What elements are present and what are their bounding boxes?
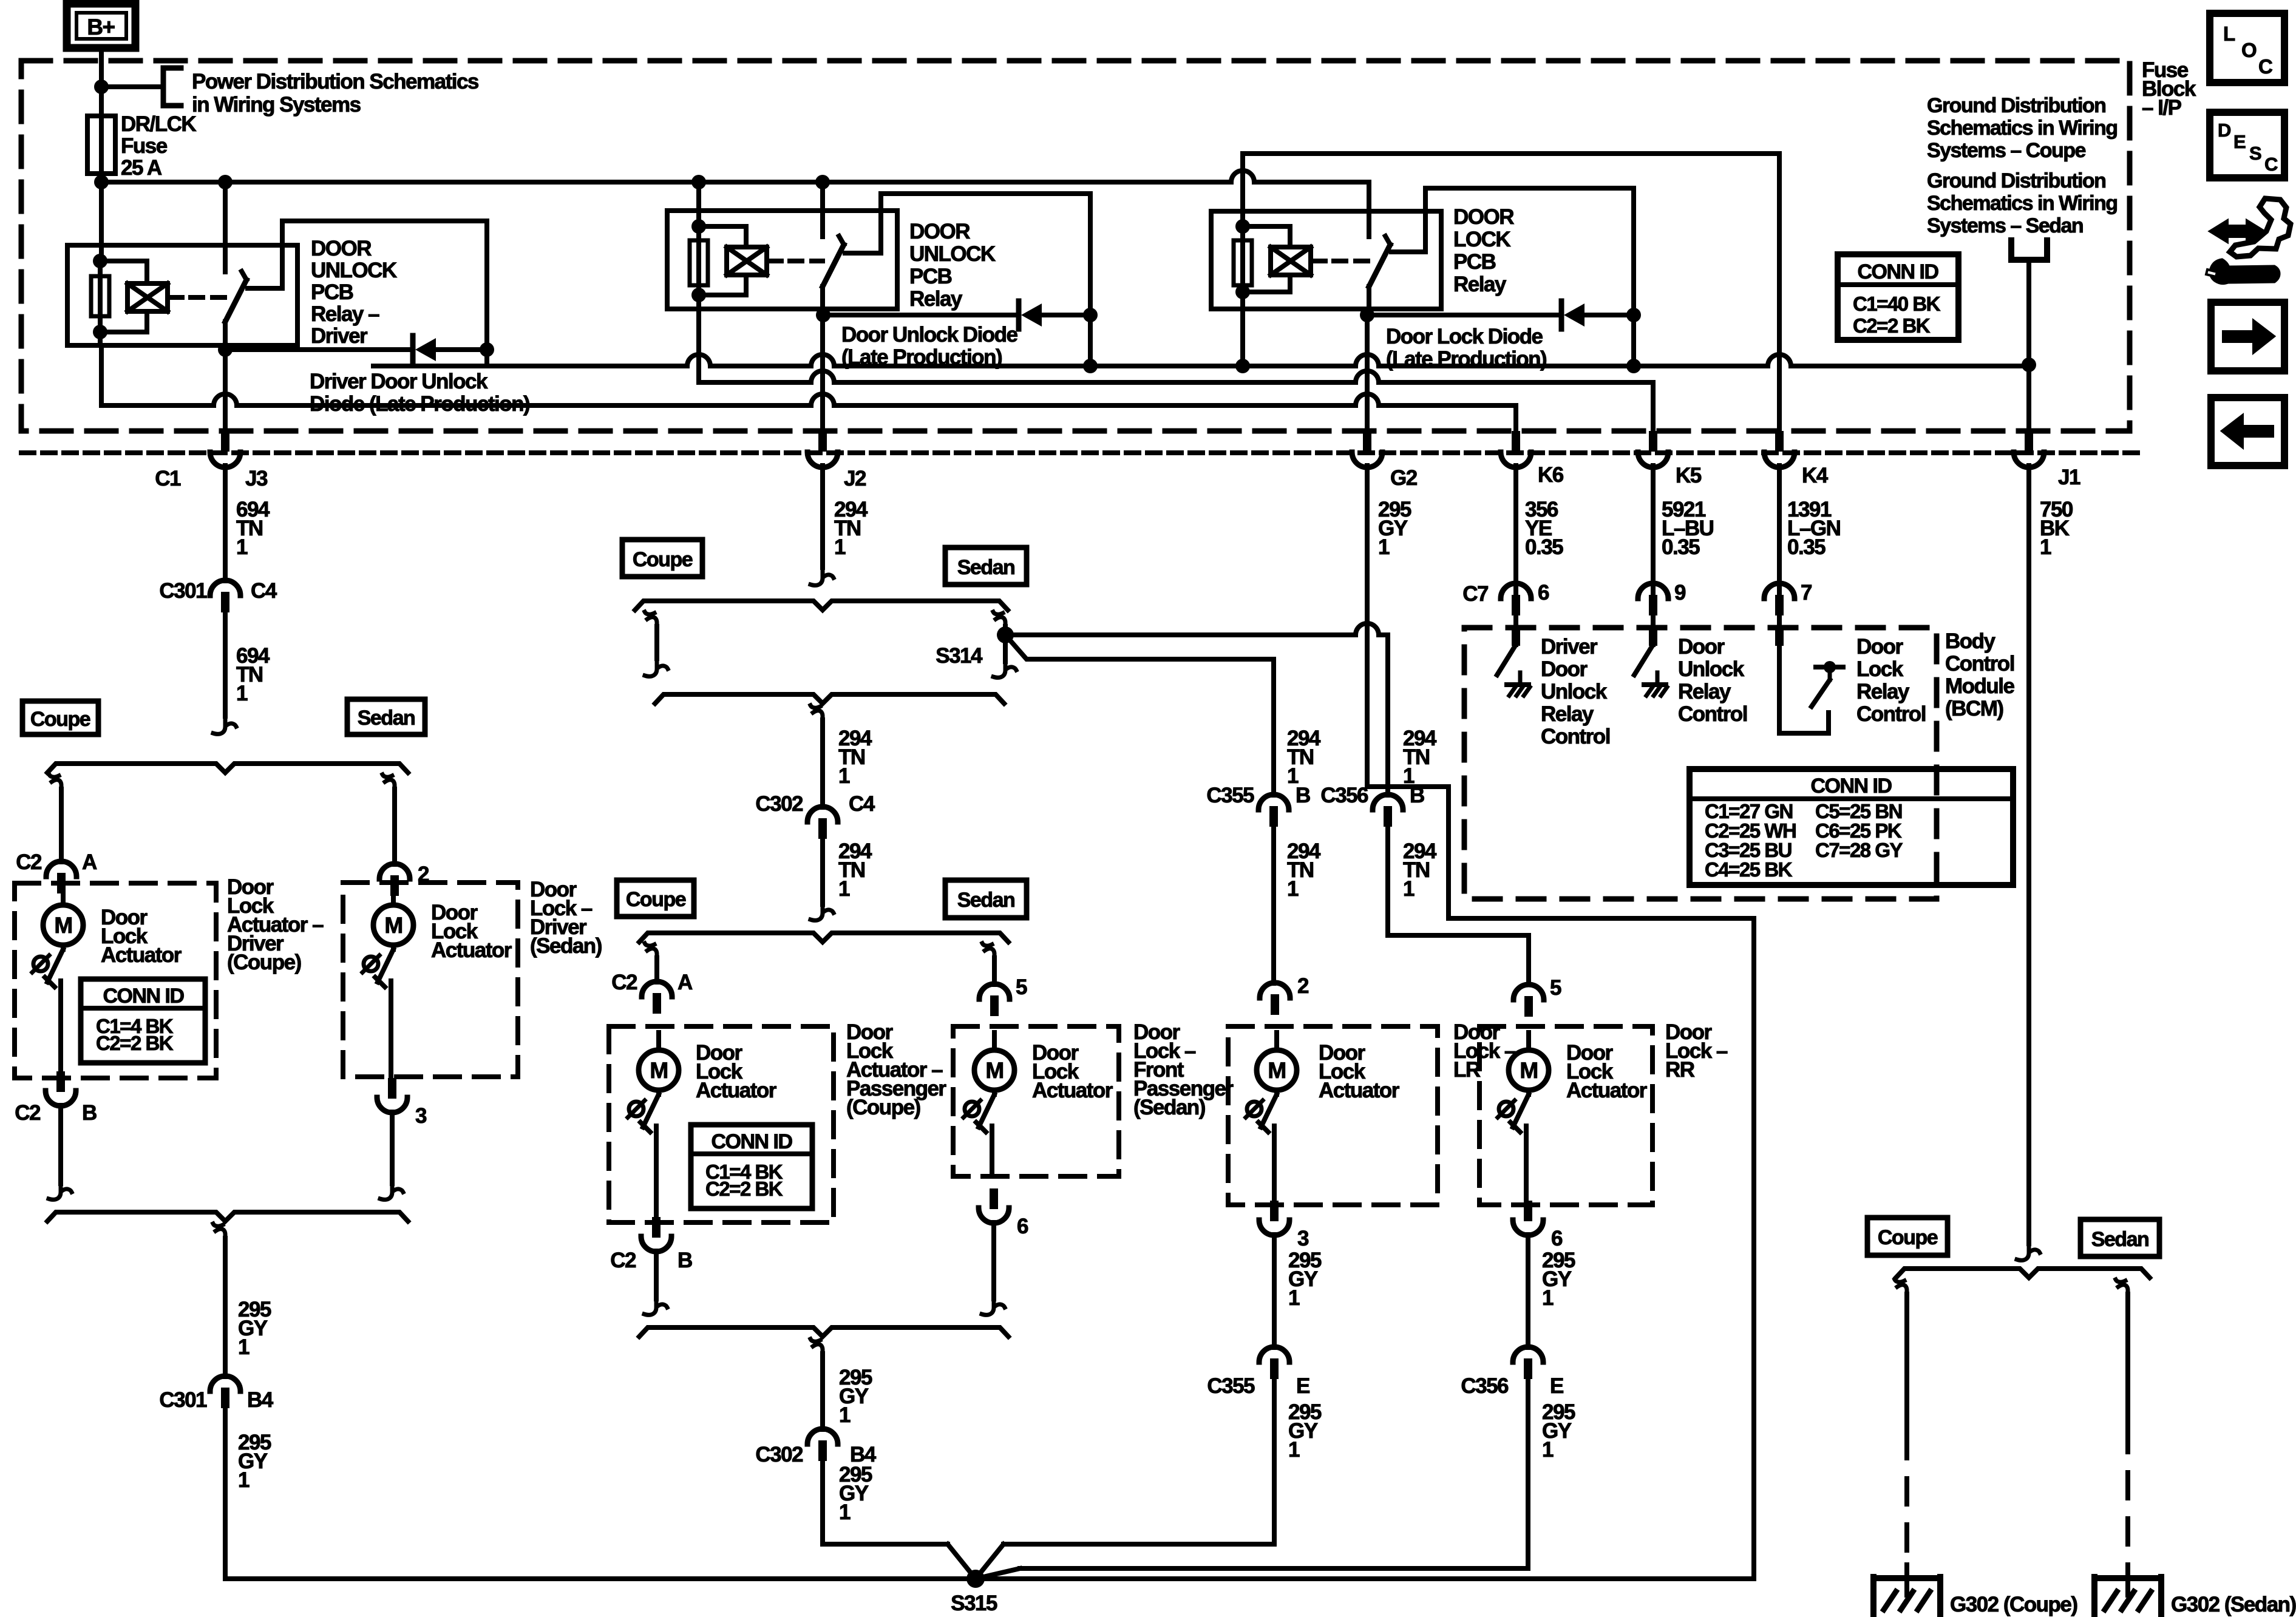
svg-text:Sedan: Sedan: [957, 556, 1015, 579]
coupe J2 stub: [645, 612, 668, 676]
svg-text:C1: C1: [155, 467, 181, 490]
label Door Lock Actuator (coupe driver): [101, 906, 182, 967]
merge brace driver doors: [47, 1212, 408, 1221]
svg-text:S314: S314: [936, 644, 983, 668]
label DOOR UNLOCK PCB Relay - Driver: [311, 237, 397, 348]
connector C302/B4: [755, 1429, 876, 1466]
svg-text:Actuator: Actuator: [1319, 1079, 1400, 1102]
svg-text:PCB: PCB: [311, 280, 353, 304]
svg-text:1: 1: [236, 682, 248, 705]
svg-text:G2: G2: [1390, 466, 1418, 490]
svg-text:7: 7: [1801, 581, 1812, 605]
svg-text:(Sedan): (Sedan): [1133, 1096, 1205, 1119]
conn id box coupe driver actuator: [81, 979, 205, 1063]
wire J1 end hook: [2017, 1242, 2040, 1260]
label Power Distribution Schematics: [192, 70, 479, 117]
ground G302 sedan: [2094, 1565, 2161, 1616]
node bus to driver unlock relay switch: [218, 175, 233, 189]
node lock coil bottom on runner: [1235, 359, 1250, 373]
relay K driver-door-unlock box: [67, 245, 297, 345]
connector K5: [1638, 431, 1702, 487]
connector C7 pin 9: [1638, 581, 1686, 615]
switch door lock relay control: [1775, 625, 1843, 733]
wire unlock switch to J2: [820, 286, 825, 313]
svg-text:Ground Distribution: Ground Distribution: [1927, 169, 2105, 192]
relay K door-unlock box: [667, 211, 897, 309]
svg-text:1: 1: [1288, 1286, 1300, 1310]
resistor lock relay coil suppression: [1234, 226, 1252, 292]
coil-switch link dashes: [168, 295, 225, 300]
svg-text:DOOR: DOOR: [311, 237, 372, 260]
power distribution bracket symbol: [163, 68, 181, 106]
svg-text:Control: Control: [1541, 725, 1610, 748]
label box Sedan (ground split): [2080, 1219, 2159, 1256]
connector C356/B: [1320, 784, 1424, 827]
wire to C302: [820, 720, 825, 807]
wire driver return upper: [223, 1238, 228, 1377]
sedan passenger branch: [982, 943, 994, 985]
coupe passenger branch: [645, 943, 657, 982]
label 5921 L-BU 0.35: [1662, 498, 1714, 559]
connector J2: [807, 431, 866, 490]
svg-text:M: M: [985, 1058, 1003, 1083]
connector 5 RR: [1513, 976, 1561, 1017]
wire lock coil bottom link: [1240, 292, 1245, 366]
svg-text:C355: C355: [1206, 784, 1254, 807]
svg-text:K6: K6: [1538, 463, 1564, 487]
svg-text:E: E: [1550, 1374, 1563, 1398]
diode door lock (late production): [1367, 301, 1634, 329]
wire K6 runner: [101, 394, 1516, 431]
svg-text:J2: J2: [844, 467, 866, 490]
split brace passenger doors: [639, 933, 1008, 942]
svg-text:C2=2 BK: C2=2 BK: [96, 1032, 174, 1054]
wire mid chain start: [810, 705, 823, 727]
svg-text:1: 1: [238, 1335, 250, 1359]
motor door lock actuator coupe passenger: [628, 1032, 679, 1222]
motor door lock actuator coupe driver: [32, 887, 83, 1078]
motor door lock actuator sedan front passenger: [963, 1032, 1014, 1176]
svg-text:1: 1: [838, 764, 850, 788]
wire G2 actuator feed: [1367, 466, 1754, 1579]
label Door Unlock Diode: [841, 323, 1018, 369]
actuator box door lock coupe driver: [15, 883, 216, 1078]
svg-text:2: 2: [1297, 974, 1309, 998]
svg-text:Unlock: Unlock: [1678, 657, 1745, 681]
label Driver Door Unlock Relay Control: [1541, 635, 1610, 748]
svg-text:M: M: [54, 913, 72, 938]
label Body Control Module (BCM): [1945, 629, 2015, 720]
connector C2/B coupe passenger: [610, 1217, 692, 1272]
svg-text:5: 5: [1550, 976, 1561, 1000]
connector C2/A coupe passenger: [611, 971, 693, 1014]
svg-text:C356: C356: [1461, 1374, 1509, 1398]
label 295 GY 1 driver return: [238, 1298, 271, 1359]
connector C1/J3: [155, 431, 268, 490]
svg-text:1: 1: [1287, 877, 1299, 901]
wire C356 to RR jog: [1388, 827, 1529, 983]
label 295 GY 1 passenger return: [839, 1366, 872, 1427]
svg-text:C7: C7: [1462, 582, 1488, 606]
wire RR return to S315 line2: [1020, 1379, 1528, 1568]
svg-text:M: M: [1520, 1058, 1537, 1083]
svg-text:Actuator: Actuator: [1566, 1079, 1648, 1102]
node S314: [997, 626, 1014, 643]
wire unlock relay output L: [845, 194, 1090, 313]
svg-text:B: B: [678, 1249, 692, 1272]
svg-text:Coupe: Coupe: [30, 708, 90, 731]
wire driver relay label-box bottom stub: [373, 350, 487, 366]
svg-text:Ground Distribution: Ground Distribution: [1927, 94, 2105, 117]
node bus to unlock relay coil: [691, 175, 706, 189]
coil-switch link dashes lock: [1311, 259, 1368, 263]
node lock relay coil bottom: [1235, 285, 1250, 299]
wire sedan driver branch: [392, 789, 397, 864]
svg-text:CONN ID: CONN ID: [1810, 775, 1892, 798]
label 1391 L-GN 0.35: [1787, 498, 1840, 559]
label box Sedan (driver split): [347, 699, 425, 734]
connector C302/C4: [755, 792, 875, 839]
switch door unlock relay: [823, 182, 844, 286]
passenger return start: [810, 1339, 823, 1361]
wire C301 to split: [213, 612, 236, 734]
motor door lock actuator sedan driver: [362, 887, 413, 1077]
label box Sedan (passenger split): [945, 880, 1027, 918]
icon DESC box: [2210, 112, 2284, 178]
label S315: [951, 1592, 997, 1615]
BCM dashed box: [1464, 628, 1937, 899]
label 295 GY 1 LR upper: [1288, 1249, 1322, 1310]
coil-switch link dashes mid: [767, 259, 823, 263]
svg-text:Sedan: Sedan: [358, 707, 415, 730]
resistor driver relay coil suppression: [91, 261, 109, 332]
svg-text:Unlock: Unlock: [1541, 680, 1608, 703]
svg-text:3: 3: [415, 1104, 427, 1128]
svg-text:Coupe: Coupe: [633, 548, 693, 571]
svg-text:B: B: [1296, 784, 1310, 807]
connector C301/B4: [159, 1376, 273, 1412]
svg-text:CONN ID: CONN ID: [711, 1130, 792, 1153]
coupe driver branch start: [49, 775, 61, 796]
label box Coupe (passenger split): [617, 880, 694, 917]
connector J1: [2014, 431, 2080, 489]
svg-text:Control: Control: [1678, 702, 1747, 726]
connector C355/E: [1207, 1347, 1309, 1398]
wire unlock coil top: [696, 182, 701, 228]
ground distribution bracket: [2011, 240, 2047, 260]
label DOOR UNLOCK PCB Relay: [909, 220, 996, 311]
svg-text:B: B: [82, 1101, 97, 1125]
connector 2 LR: [1260, 974, 1309, 1015]
svg-text:1: 1: [1403, 877, 1415, 901]
svg-text:Relay –: Relay –: [311, 302, 379, 326]
node S315: [966, 1570, 985, 1588]
svg-text:1: 1: [834, 535, 846, 559]
dotted connector line: [21, 450, 2143, 455]
svg-text:B+: B+: [87, 15, 115, 39]
wire RR to C356E: [1526, 1235, 1530, 1347]
label Ground Distribution Coupe: [1927, 94, 2118, 162]
connector C2/A coupe driver: [16, 850, 97, 893]
svg-text:1: 1: [1288, 1438, 1300, 1462]
svg-text:LR: LR: [1453, 1058, 1481, 1082]
merge brace mid (coupe stub / sedan): [655, 694, 1004, 703]
actuator box sedan front passenger: [953, 1026, 1119, 1176]
wire K4 control runner: [1243, 154, 1779, 431]
connector C301/C4: [159, 579, 277, 612]
label Fuse Block - I/P: [2142, 58, 2196, 120]
svg-text:CONN ID: CONN ID: [103, 985, 184, 1008]
icon forward arrow box: [2211, 302, 2284, 371]
svg-text:0.35: 0.35: [1525, 535, 1563, 559]
svg-text:in Wiring Systems: in Wiring Systems: [192, 93, 361, 117]
conn id box coupe passenger actuator: [691, 1125, 812, 1209]
label Driver Door Unlock Diode: [310, 370, 529, 416]
label DOOR LOCK PCB Relay: [1453, 205, 1514, 296]
label S314: [936, 644, 983, 668]
svg-text:RR: RR: [1665, 1058, 1695, 1082]
switch door unlock relay control: [1634, 625, 1667, 696]
node bus to unlock relay switch: [815, 175, 830, 189]
wire passenger return: [820, 1354, 825, 1429]
svg-text:G302 (Coupe): G302 (Coupe): [1950, 1593, 2077, 1616]
svg-text:K4: K4: [1802, 464, 1829, 487]
wire coupe passenger to merge: [644, 1251, 667, 1315]
switch door lock relay: [1369, 182, 1390, 286]
svg-text:C2: C2: [610, 1249, 636, 1272]
label Door Lock Relay Control: [1856, 635, 1926, 726]
svg-text:C302: C302: [755, 1443, 803, 1466]
svg-text:S: S: [2249, 143, 2261, 164]
node lock diode left junction: [1360, 308, 1374, 322]
connector 5 sedan front passenger: [979, 975, 1027, 1016]
wire lock coil control up: [1240, 154, 1245, 226]
wire J2 drop: [820, 315, 825, 431]
svg-text:C7=28 GY: C7=28 GY: [1815, 839, 1903, 861]
icon back arrow box: [2211, 398, 2284, 466]
svg-text:Driver: Driver: [1541, 635, 1598, 659]
wire C302 to split2: [810, 839, 834, 920]
wire J1 drop long: [2026, 466, 2031, 1244]
svg-text:DR/LCK: DR/LCK: [121, 112, 196, 136]
svg-text:Schematics in Wiring: Schematics in Wiring: [1927, 192, 2118, 215]
svg-text:(Coupe): (Coupe): [227, 951, 301, 974]
svg-text:Actuator: Actuator: [431, 938, 512, 962]
svg-text:UNLOCK: UNLOCK: [311, 259, 397, 282]
svg-text:CONN ID: CONN ID: [1857, 260, 1938, 283]
coupe ground branch: [1895, 1280, 1907, 1569]
svg-text:C2: C2: [16, 850, 42, 874]
connector C7/6: [1462, 581, 1549, 615]
svg-text:Lock: Lock: [1856, 657, 1904, 681]
wire unlock coil bottom drop: [696, 295, 701, 382]
svg-text:Relay: Relay: [1541, 702, 1594, 726]
node fuse tap junction: [94, 80, 109, 94]
switch driver door unlock relay control: [1497, 625, 1530, 696]
node driver diode right junction: [480, 342, 494, 357]
svg-text:1: 1: [236, 535, 248, 559]
svg-text:Body: Body: [1945, 629, 1996, 653]
svg-text:Relay: Relay: [1678, 680, 1731, 703]
wire G2 drop: [1365, 315, 1370, 431]
fuse DR/LCK 25A: [87, 116, 115, 182]
node unlock diode right junction: [1083, 308, 1098, 322]
wire lock relay output L: [1391, 188, 1634, 313]
node unlock relay coil top: [691, 219, 706, 234]
svg-text:(Coupe): (Coupe): [846, 1096, 920, 1119]
switch driver unlock relay: [225, 185, 246, 322]
splice S315 line2 diag: [976, 1568, 1020, 1579]
wire K5 runner: [699, 371, 1653, 431]
wire K5 to BCM: [1651, 466, 1656, 629]
wire main B+ bus: [101, 171, 1369, 182]
label 294 TN 1 (J2): [834, 498, 868, 559]
node J1 runner junction: [2022, 358, 2036, 372]
svg-text:J3: J3: [245, 467, 268, 490]
svg-text:O: O: [2241, 39, 2257, 61]
svg-text:K5: K5: [1676, 464, 1702, 487]
svg-text:UNLOCK: UNLOCK: [909, 242, 996, 266]
label G302 (Sedan): [2171, 1593, 2296, 1616]
svg-text:6: 6: [1538, 581, 1549, 605]
label 295 GY 1 (G2): [1378, 498, 1411, 559]
label 294 TN 1 below C355: [1287, 839, 1321, 901]
wire driver return to S315: [225, 1408, 1754, 1579]
svg-text:C356: C356: [1320, 784, 1368, 807]
node driver relay coil top: [93, 254, 107, 268]
driver return start: [213, 1224, 225, 1246]
label 295 GY 1 LR lower: [1288, 1400, 1322, 1462]
label Door Lock - Driver (Sedan): [530, 878, 602, 958]
node lock diode right junction: [1626, 308, 1641, 322]
svg-text:Actuator: Actuator: [101, 943, 182, 967]
node unlock relay coil bottom: [691, 288, 706, 302]
fuse block I/P dashed box: [21, 61, 2130, 431]
svg-text:B4: B4: [247, 1388, 274, 1412]
motor door lock actuator LR: [1246, 1032, 1297, 1205]
relay K door-lock box: [1211, 211, 1441, 309]
svg-text:Actuator: Actuator: [1032, 1079, 1113, 1102]
svg-text:Systems – Sedan: Systems – Sedan: [1927, 214, 2083, 237]
label 750 BK 1: [2040, 498, 2073, 559]
svg-text:(BCM): (BCM): [1945, 697, 2003, 720]
svg-text:C: C: [2258, 55, 2272, 78]
svg-text:C2=2 BK: C2=2 BK: [1853, 314, 1931, 337]
svg-text:Control: Control: [1945, 652, 2014, 676]
svg-text:6: 6: [1551, 1227, 1563, 1250]
split brace J2: [635, 601, 1008, 610]
svg-text:C4=25 BK: C4=25 BK: [1705, 858, 1793, 881]
label 295 GY 1 below C302 B4: [839, 1463, 872, 1524]
wire tap to power distribution bracket: [101, 84, 162, 89]
label 356 YE 0.35: [1525, 498, 1563, 559]
coil driver unlock relay: [100, 261, 168, 332]
label box Coupe (J2 split): [622, 540, 702, 577]
label Door Lock - RR: [1665, 1020, 1728, 1082]
label Door Lock Actuator (coupe passenger): [696, 1041, 777, 1102]
label Door Lock Diode: [1386, 325, 1546, 371]
svg-text:1: 1: [838, 877, 850, 901]
merge brace passenger: [639, 1327, 1008, 1337]
svg-text:25 A: 25 A: [121, 156, 162, 180]
connector 2 sedan driver: [379, 863, 429, 896]
svg-text:Coupe: Coupe: [1878, 1226, 1938, 1249]
sedan ground branch: [2116, 1280, 2128, 1569]
svg-text:G302 (Sedan): G302 (Sedan): [2171, 1593, 2296, 1616]
split brace grounds: [1896, 1269, 2150, 1278]
diode driver door unlock (late production): [225, 336, 487, 364]
connector G2: [1352, 431, 1418, 490]
connector 3 sedan driver: [377, 1078, 427, 1128]
wire C355 to LR: [1271, 827, 1276, 983]
wire K4 to BCM: [1777, 466, 1782, 629]
wire J3 to C301: [223, 466, 228, 581]
conn id box fuse block: [1838, 254, 1958, 340]
svg-text:Relay: Relay: [1856, 680, 1910, 703]
wire B+ to fuse: [99, 48, 104, 116]
wire J2 to split: [810, 466, 834, 585]
label Door Unlock Relay Control: [1678, 635, 1747, 726]
wire S314 to C356 upper: [1005, 623, 1388, 795]
wire passenger return to S315: [823, 1461, 948, 1544]
svg-text:0.35: 0.35: [1787, 535, 1826, 559]
svg-text:– I/P: – I/P: [2142, 96, 2182, 120]
label Door Lock Actuator - Driver (Coupe): [227, 875, 324, 974]
svg-text:Sedan: Sedan: [957, 889, 1015, 912]
svg-text:C: C: [2264, 154, 2278, 175]
wire coupe driver branch: [59, 789, 64, 862]
svg-text:Sedan: Sedan: [2091, 1228, 2149, 1251]
wire driver relay output L: [248, 221, 487, 347]
node unlock diode left junction: [816, 308, 830, 322]
svg-text:Door: Door: [1541, 657, 1588, 681]
connector 3 LR: [1259, 1201, 1309, 1250]
svg-text:J1: J1: [2058, 466, 2080, 489]
coil door unlock relay: [699, 226, 767, 295]
label G302 (Coupe): [1950, 1593, 2077, 1616]
svg-text:6: 6: [1017, 1215, 1028, 1238]
icon car with arrow and wrench: [2206, 198, 2291, 283]
svg-text:Fuse: Fuse: [121, 134, 168, 158]
wire S314 to C355 lower: [1005, 635, 1274, 795]
node driver diode left junction: [218, 342, 233, 357]
wire LR to C355E: [1272, 1235, 1277, 1347]
icon LOC box: [2210, 13, 2284, 83]
wire coupe driver to merge: [49, 1105, 72, 1199]
svg-text:1: 1: [839, 1403, 851, 1427]
node lock relay coil top: [1235, 219, 1250, 234]
ground G302 coupe: [1873, 1565, 1940, 1616]
actuator box coupe passenger: [609, 1026, 834, 1222]
connector C2/B coupe driver: [15, 1071, 97, 1125]
svg-text:C2: C2: [611, 971, 637, 994]
coil door lock relay: [1243, 226, 1311, 292]
label box Coupe (driver split): [22, 701, 98, 734]
connector 6 sedan front passenger: [979, 1188, 1028, 1238]
svg-text:9: 9: [1674, 581, 1686, 605]
node unlock edge runner junction: [1083, 359, 1098, 373]
connector C355/B: [1206, 784, 1310, 827]
svg-text:1: 1: [1542, 1438, 1554, 1462]
diode door unlock (late production): [823, 301, 1090, 329]
svg-text:5: 5: [1016, 975, 1027, 999]
wire driver coil bottom drop: [100, 332, 101, 405]
label Door Lock Actuator - Passenger (Coupe): [846, 1020, 946, 1119]
svg-text:Door: Door: [1856, 635, 1904, 659]
svg-text:M: M: [1268, 1058, 1285, 1083]
motor door lock actuator RR: [1498, 1032, 1549, 1205]
svg-text:Door Lock Diode: Door Lock Diode: [1386, 325, 1543, 348]
